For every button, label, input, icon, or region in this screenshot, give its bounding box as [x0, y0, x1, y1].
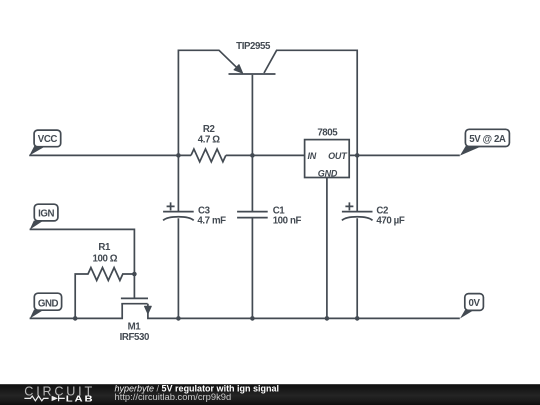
net flag 5V @ 2A [460, 129, 510, 155]
wire below node B down to C1 [251, 155, 253, 211]
svg-text:OUT: OUT [328, 151, 348, 161]
capacitor C1 [237, 206, 301, 227]
svg-text:R1: R1 [98, 242, 111, 253]
svg-text:IN: IN [308, 151, 317, 161]
wire left vertical branch (node A) [178, 50, 238, 211]
node junction gate / R1 right [132, 272, 137, 277]
net flag 0V [460, 294, 483, 319]
wire 7805 GND down [326, 178, 328, 319]
svg-text:GND: GND [318, 168, 338, 178]
node junction C1 bottom [250, 316, 255, 321]
resistor R2 [191, 149, 226, 162]
resistor R1 [75, 242, 134, 319]
node junction R1 left on gnd rail [73, 316, 78, 321]
svg-text:IGN: IGN [38, 208, 54, 219]
svg-text:VCC: VCC [38, 134, 58, 145]
svg-text:GND: GND [38, 298, 59, 309]
svg-text:470 µF: 470 µF [376, 215, 404, 226]
svg-text:M1: M1 [128, 322, 142, 333]
footer bar [0, 384, 540, 405]
node junction C2 bottom [355, 316, 360, 321]
node junction R2 right / base [250, 153, 255, 158]
wire below C3 [177, 218, 179, 318]
svg-text:4.7 mF: 4.7 mF [197, 215, 226, 226]
wire below C1 [251, 218, 253, 319]
svg-text:4.7 Ω: 4.7 Ω [198, 135, 221, 146]
node junction C3 bottom [176, 316, 181, 321]
transistor Q1 TIP2955 [229, 41, 358, 211]
node junction 7805 gnd bottom [325, 316, 330, 321]
net flag IGN [30, 204, 58, 229]
regulator U1 7805 [305, 128, 350, 179]
node junction VCC/R2 left [176, 153, 181, 158]
svg-text:100 nF: 100 nF [273, 215, 302, 226]
capacitor C3 [163, 202, 226, 226]
CircuitLab logo waveform [24, 396, 48, 401]
net flag GND [30, 293, 62, 318]
node junction OUT crossing [355, 153, 360, 158]
svg-text:TIP2955: TIP2955 [236, 41, 271, 52]
svg-text:5V @ 2A: 5V @ 2A [469, 134, 506, 145]
wire VCC rail horizontal [29, 154, 191, 156]
svg-text:7805: 7805 [317, 128, 338, 139]
wire base vertical of Q1 [251, 75, 253, 156]
svg-text:LAB: LAB [66, 395, 95, 404]
svg-text:http://circuitlab.com/crp9k9d: http://circuitlab.com/crp9k9d [115, 391, 232, 402]
wire R2 to node B [226, 154, 305, 156]
svg-text:100 Ω: 100 Ω [92, 254, 117, 265]
wire below C2 [356, 218, 358, 318]
wire IGN horizontal and down to gate [30, 229, 135, 297]
svg-text:0V: 0V [468, 298, 480, 309]
svg-text:IRF530: IRF530 [120, 332, 149, 343]
wire 7805 OUT to 5V flag [349, 154, 460, 156]
svg-text:R2: R2 [203, 124, 215, 135]
wire 0V rail right of M1 [148, 304, 460, 319]
transistor M1 IRF530 [120, 298, 152, 343]
capacitor C2 [342, 202, 405, 226]
net flag VCC [29, 130, 60, 155]
wire GND rail left of M1 [30, 304, 123, 319]
